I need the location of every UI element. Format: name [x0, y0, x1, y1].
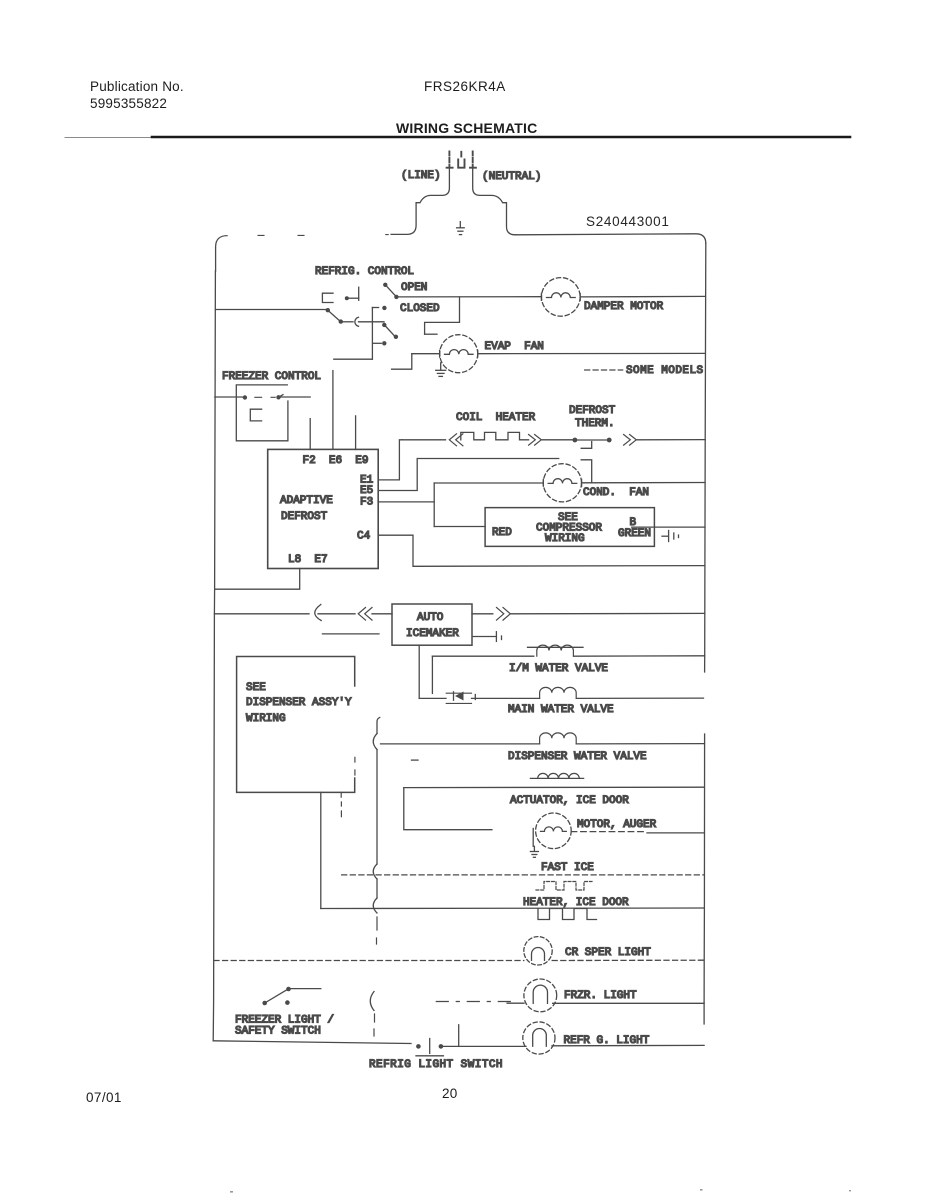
damper motor winding humps [547, 293, 576, 298]
outer border left vertical [213, 271, 215, 1041]
dispenser light LP1 circle [524, 937, 552, 965]
freezer control switch wire left [215, 396, 243, 398]
svg-text:ADAPTIVE: ADAPTIVE [280, 495, 333, 507]
defrost thermostat dot right [607, 438, 612, 443]
wire top right to border corner [516, 234, 706, 244]
freezer safety switch contact dot 1 [262, 1001, 267, 1006]
wire red into compressor box [434, 526, 485, 528]
ground symbol below plug [457, 222, 465, 235]
wire F3 to red junction [378, 501, 434, 503]
title rule thin [65, 137, 850, 139]
evap fan left stub [392, 354, 412, 370]
freezer control box [236, 385, 288, 441]
refrig control: blade to lower contact [328, 310, 340, 321]
wire L8 bottom to left border [215, 569, 300, 590]
dispenser water valve wire left [381, 743, 540, 745]
main water valve wire mid [472, 697, 540, 699]
refrig control: OPEN blade [385, 285, 396, 296]
plug prong NEUTRAL [470, 152, 476, 168]
refrig light switch stem [458, 1025, 460, 1047]
refrig light filament [533, 1029, 547, 1047]
freezer safety switch wire [291, 988, 321, 990]
im valve feed vertical [431, 656, 433, 693]
damper motor ticks [541, 294, 580, 301]
motor auger feed bracket [404, 788, 492, 830]
svg-text:DAMPER MOTOR: DAMPER MOTOR [584, 301, 664, 313]
frzr light wire right [553, 1002, 704, 1004]
svg-text:(NEUTRAL): (NEUTRAL) [482, 171, 541, 183]
svg-text:REFRIG LIGHT SWITCH: REFRIG LIGHT SWITCH [369, 1059, 503, 1071]
wire green B to right border [632, 526, 705, 528]
wire cond fan to right border [582, 482, 705, 484]
icemaker chevrons [358, 608, 372, 621]
plug prong LINE [447, 152, 453, 168]
wire damper motor to right border [580, 295, 705, 298]
svg-text:DISPENSER ASSY'Y: DISPENSER ASSY'Y [246, 697, 352, 709]
svg-text:REFRIG. CONTROL: REFRIG. CONTROL [315, 266, 414, 278]
svg-text:FREEZER CONTROL: FREEZER CONTROL [222, 371, 321, 383]
refrig control: mid contact dot [382, 323, 386, 327]
refrig light wire right [552, 1044, 704, 1046]
refrig light switch base [416, 1055, 443, 1057]
evap fan ground [436, 363, 446, 377]
freezer control contact dot 2 [276, 395, 280, 399]
vertical bus hop at heater wire [373, 898, 377, 913]
vertical bus top hook [377, 718, 380, 734]
wire evap fan to right border [478, 352, 706, 354]
wire into evap fan [412, 353, 440, 355]
adaptive defrost pin E9 [355, 416, 357, 450]
coil heater R1 square wave [461, 432, 529, 439]
svg-text:AUTO: AUTO [417, 612, 444, 624]
freezer safety switch blade [265, 989, 288, 1003]
svg-text:GREEN: GREEN [618, 528, 651, 540]
dispenser light filament [532, 948, 545, 961]
motor auger M4 circle [536, 813, 572, 849]
fast ice dashed heater R2 [536, 882, 592, 891]
dispenser light dashed wire left [214, 960, 524, 962]
damper motor M1 circle [542, 278, 581, 317]
refrig control: bus vertical [371, 308, 373, 360]
refrig control: lower contact stub [373, 342, 381, 344]
svg-text:E5: E5 [360, 485, 373, 497]
dispenser box bottom stub dashed [340, 792, 342, 816]
evap fan feed drop from main wire [425, 297, 460, 334]
main water valve L2 coil [540, 687, 577, 698]
frzr light LP2 circle [524, 979, 557, 1012]
cond fan ticks [543, 479, 581, 486]
refrig control: CLOSED tick [372, 307, 378, 309]
wire plug line-side S-bend [391, 168, 449, 235]
defrost thermostat dot left [573, 438, 578, 443]
evap fan M2 circle [440, 335, 478, 373]
svg-text:5995355822: 5995355822 [90, 96, 167, 111]
frzr light wire left stub [507, 1002, 524, 1004]
refrig control: aux wire and bar [349, 287, 359, 300]
svg-text:HEATER, ICE DOOR: HEATER, ICE DOOR [523, 897, 629, 909]
icemaker feed wire from left border [214, 613, 309, 615]
outer border right lower [703, 734, 706, 1024]
auto icemaker box [392, 604, 472, 645]
svg-text:FRS26KR4A: FRS26KR4A [424, 79, 506, 94]
refrig control: bus bottom L [334, 358, 373, 360]
refrig control: common contact dot [326, 308, 330, 312]
scanner speck right margin [849, 1190, 851, 1191]
motor auger winding humps [541, 827, 567, 831]
icemaker feed hop [315, 605, 321, 621]
icemaker feed wire segment 2 [318, 613, 355, 615]
vertical bus segment 2 [376, 750, 378, 865]
svg-text:07/01: 07/01 [86, 1090, 122, 1105]
svg-text:FAST ICE: FAST ICE [541, 862, 594, 874]
refrig light LP3 circle [523, 1022, 555, 1054]
svg-text:COND. FAN: COND. FAN [583, 487, 649, 499]
svg-text:EVAP FAN: EVAP FAN [485, 341, 544, 353]
small dash mark [412, 759, 419, 761]
cond fan winding humps [548, 479, 577, 484]
wire to defrost thermostat [541, 439, 572, 441]
refrig light switch contact dot 1 [416, 1044, 421, 1049]
vertical bus bottom dashes [373, 1014, 376, 1036]
chassis ground symbol [662, 531, 679, 542]
plug prong ground pin [458, 152, 464, 168]
svg-text:(LINE): (LINE) [401, 170, 441, 182]
refrig light switch contact dot 2 [439, 1044, 444, 1049]
refrig control: capacitor bracket [322, 293, 333, 302]
junction vertical F3/red/condfan [433, 483, 435, 527]
refrig control: CLOSED contact dot [382, 306, 386, 310]
wire icemaker out [472, 613, 493, 615]
vertical bus hop at frzr light wire [370, 992, 374, 1011]
wire defrost to right border [636, 439, 705, 441]
scanner speck bottom left [230, 1191, 233, 1193]
svg-text:WIRING: WIRING [246, 713, 286, 725]
freezer control blade tick [279, 395, 284, 398]
adaptive defrost pin E6 [332, 371, 334, 450]
svg-text:CLOSED: CLOSED [400, 303, 440, 315]
freezer control dashed blade [255, 396, 275, 398]
defrost thermostat bridge wire [575, 439, 609, 441]
svg-text:SOME MODELS: SOME MODELS [626, 365, 704, 377]
dispenser light dashed wire right [552, 959, 704, 961]
dispenser box bottom drop to heater wire [320, 792, 322, 908]
refrig control: OPEN pivot dot [383, 283, 387, 287]
svg-text:WIRING SCHEMATIC: WIRING SCHEMATIC [396, 120, 537, 136]
freezer control sensor bracket [250, 409, 261, 421]
see dispenser assy wiring box [237, 657, 355, 793]
svg-text:20: 20 [442, 1086, 457, 1101]
wire C4 return [378, 535, 705, 566]
motor auger terminal bar [532, 829, 534, 847]
refrig light switch plunger [429, 1039, 431, 1054]
freezer control contact dot 1 [243, 395, 247, 399]
refrig control: aux contact dot [345, 296, 349, 300]
freezer safety switch contact dot 2 [285, 1000, 290, 1005]
svg-text:DISPENSER WATER VALVE: DISPENSER WATER VALVE [508, 751, 647, 763]
outer border right upper [705, 243, 706, 672]
main water valve wire left [419, 697, 446, 699]
vertical bus hop at fast ice wire [373, 864, 377, 879]
svg-text:MAIN WATER VALVE: MAIN WATER VALVE [508, 704, 614, 716]
evap fan ticks [440, 350, 478, 357]
outer border left with top corner [216, 236, 227, 271]
coil heater chevrons right [529, 435, 542, 446]
coil heater chevrons left [449, 434, 463, 446]
wire E1 to coil heater line [378, 440, 402, 480]
svg-text:WIRING: WIRING [545, 533, 585, 545]
wire icemaker out to right border [510, 612, 704, 614]
freezer control switch wire right [281, 396, 311, 398]
svg-text:OPEN: OPEN [401, 282, 427, 294]
im water valve wire right [574, 655, 705, 657]
freezer safety switch pivot dot [286, 987, 291, 992]
svg-text:I/M WATER VALVE: I/M WATER VALVE [509, 663, 608, 675]
refrig control: lower blade dot [339, 319, 343, 323]
svg-text:DEFROST: DEFROST [569, 405, 616, 417]
heater ice door wire [321, 907, 705, 910]
refrig control: OPEN contact dot [394, 295, 398, 299]
svg-text:Publication No.: Publication No. [90, 79, 184, 94]
cond fan M3 circle [543, 464, 581, 502]
wire dashes toward left border [258, 234, 388, 237]
frzr light filament [533, 985, 547, 1003]
coil heater wire left segment [402, 439, 445, 441]
stub under icemaker wire [322, 633, 379, 635]
icemaker bottom pin [418, 645, 420, 698]
dispenser water valve wire right [576, 743, 704, 745]
wire switch to refrig lamp [443, 1045, 526, 1047]
bottom wire left segment [213, 1041, 411, 1044]
icemaker out chevrons [497, 608, 511, 621]
dispenser water valve L3 coil [540, 733, 577, 744]
wire E5 stub [378, 459, 559, 491]
refrig control: throw dot [394, 335, 398, 339]
motor auger wire to right border [647, 832, 704, 834]
svg-text:F2 E6 E9: F2 E6 E9 [303, 455, 369, 467]
compressor wiring box [485, 508, 654, 547]
evap fan feed elbow to circle top [425, 333, 437, 335]
svg-text:F3: F3 [360, 497, 373, 509]
frzr light dash-dot feed [436, 1001, 510, 1003]
im water valve L1 coil [528, 645, 584, 656]
fast ice dashed wire [342, 874, 705, 876]
defrost thermostat hook under [581, 442, 592, 449]
svg-text:RED: RED [492, 527, 512, 539]
svg-text:C4: C4 [357, 531, 371, 543]
svg-text:ACTUATOR, ICE DOOR: ACTUATOR, ICE DOOR [510, 795, 629, 807]
svg-text:FRZR. LIGHT: FRZR. LIGHT [564, 990, 637, 1002]
svg-text:THERM.: THERM. [575, 418, 615, 430]
svg-text:SEE: SEE [246, 682, 266, 694]
main wire to damper motor [399, 296, 542, 298]
refrig control: mid blade [385, 326, 394, 336]
motor auger dashed wire [571, 831, 647, 833]
svg-text:ICEMAKER: ICEMAKER [406, 628, 459, 640]
adaptive defrost pin F2 [309, 419, 311, 450]
actuator wire [404, 786, 705, 788]
vertical bus hop at dispenser valve wire [373, 734, 377, 750]
svg-text:L8 E7: L8 E7 [288, 554, 328, 566]
main water valve wire right [576, 697, 703, 699]
svg-text:SAFETY SWITCH: SAFETY SWITCH [235, 1026, 321, 1038]
svg-text:COIL HEATER: COIL HEATER [456, 412, 536, 424]
vertical bus dashes below [376, 917, 379, 944]
svg-text:CR SPER LIGHT: CR SPER LIGHT [565, 947, 651, 959]
main valve diode CR1 [446, 692, 475, 704]
im water valve wire left [432, 655, 533, 657]
icemaker feed wire segment 3 [372, 613, 392, 615]
defrost chevrons right [624, 435, 637, 446]
some models dashed lead [585, 369, 623, 371]
refrig control: lower contact dot [382, 341, 386, 345]
svg-text:S240443001: S240443001 [586, 214, 670, 229]
wire plug neutral-side S-bend [473, 168, 517, 235]
wire into cond fan [434, 482, 543, 484]
vertical bus segment 3 [376, 879, 378, 898]
evap fan winding humps [445, 350, 474, 355]
refrig control: wire with hop to bus [343, 317, 384, 326]
heater ice door R3 square wave [538, 909, 597, 920]
title rule thick [152, 136, 850, 139]
svg-text:MOTOR, AUGER: MOTOR, AUGER [577, 819, 657, 831]
refrig control: feed wire from left border [216, 309, 327, 311]
svg-text:DEFROST: DEFROST [281, 511, 328, 523]
motor auger ground [530, 846, 538, 857]
adaptive defrost U1 box [268, 449, 379, 568]
icemaker probe terminal [473, 632, 502, 642]
wire defrost therm to cond fan [581, 460, 592, 483]
scanner speck bottom right [700, 1189, 703, 1191]
actuator L4 coil with strike [530, 773, 583, 778]
